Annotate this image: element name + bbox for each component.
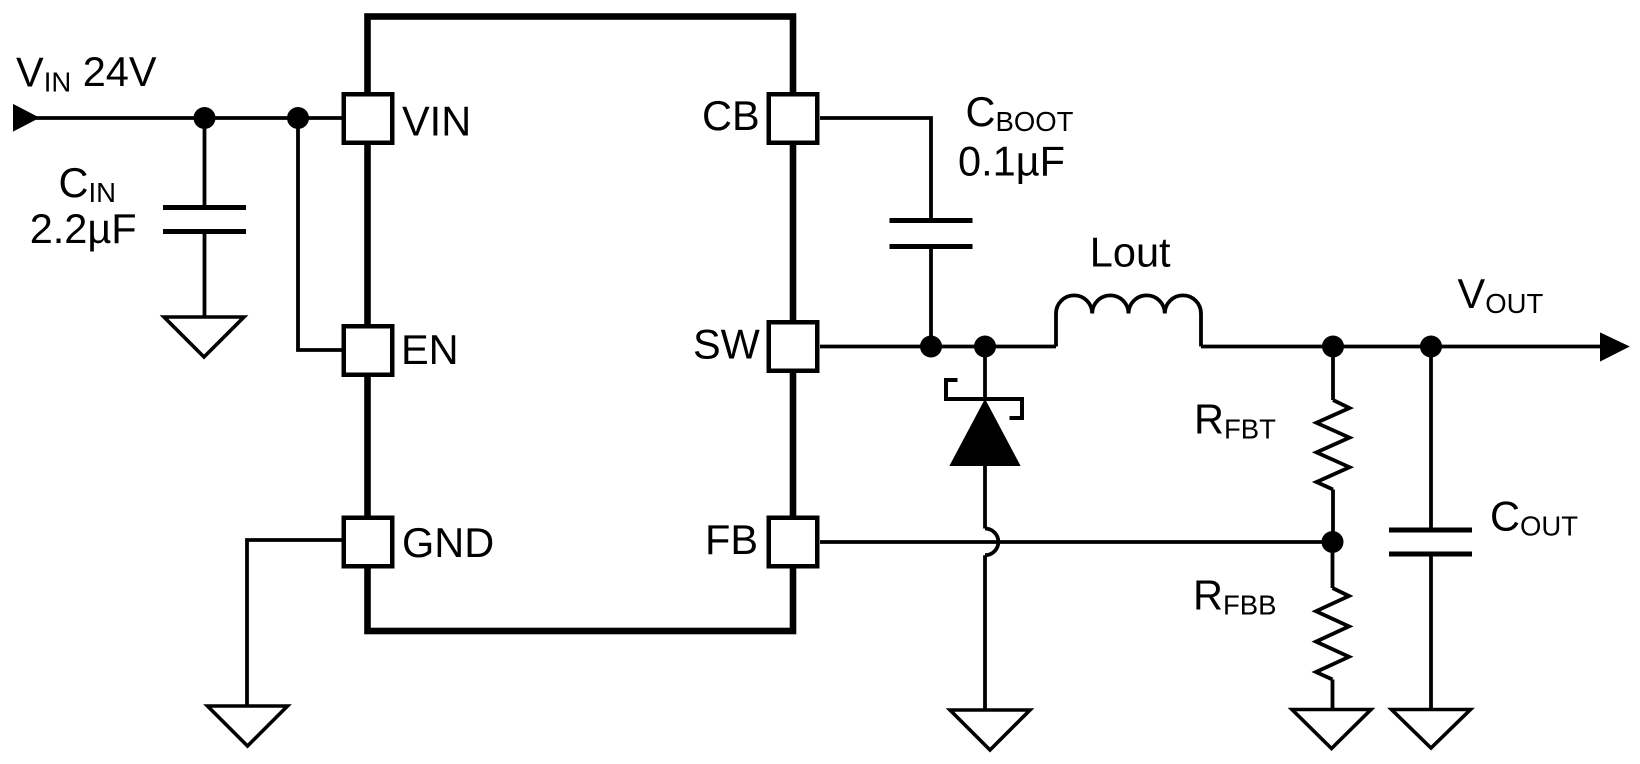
label CBOOT bbox=[966, 88, 1074, 137]
svg-text:GND: GND bbox=[402, 519, 494, 566]
svg-text:EN: EN bbox=[401, 326, 459, 373]
label pin VIN bbox=[402, 97, 471, 144]
label pin GND bbox=[402, 519, 494, 566]
wire FB node to RFBB bbox=[1331, 542, 1335, 588]
wire VIN input to VIN pin bbox=[30, 116, 342, 120]
node VOUT/RFBT junction bbox=[1322, 336, 1344, 358]
node FB junction bbox=[1322, 531, 1344, 553]
label pin FB bbox=[705, 516, 758, 563]
node VOUT/COUT junction bbox=[1420, 336, 1442, 358]
resistor RFBB bbox=[1316, 588, 1349, 680]
wire VOUT to COUT bbox=[1429, 347, 1433, 531]
label pin SW bbox=[693, 321, 761, 368]
pin GND (square) bbox=[344, 518, 393, 567]
capacitor CIN bbox=[163, 208, 246, 232]
svg-text:COUT: COUT bbox=[1490, 493, 1578, 542]
wire RFBB to ground bbox=[1331, 680, 1335, 710]
svg-text:CBOOT: CBOOT bbox=[966, 88, 1074, 137]
ground (RFBB) bbox=[1292, 710, 1371, 749]
capacitor CBOOT bbox=[890, 221, 973, 247]
svg-text:SW: SW bbox=[693, 321, 761, 368]
node SW/CBOOT junction bbox=[920, 336, 942, 358]
pin FB (square) bbox=[769, 518, 818, 567]
label VOUT bbox=[1458, 270, 1544, 319]
svg-text:CB: CB bbox=[702, 92, 760, 139]
svg-text:FB: FB bbox=[705, 516, 758, 563]
svg-text:VIN: VIN bbox=[402, 97, 471, 144]
label COUT bbox=[1490, 493, 1578, 542]
label VIN 24V bbox=[16, 48, 157, 98]
svg-text:0.1µF: 0.1µF bbox=[958, 137, 1065, 184]
wire D1 anode to ground bbox=[983, 555, 987, 710]
svg-text:VOUT: VOUT bbox=[1458, 270, 1544, 319]
svg-text:CIN: CIN bbox=[59, 159, 116, 208]
ground (D1) bbox=[950, 710, 1030, 750]
svg-text:Lout: Lout bbox=[1090, 229, 1171, 276]
inductor Lout bbox=[1056, 295, 1201, 346]
op IC U1 body bbox=[368, 17, 794, 632]
wire FB pin to divider bbox=[820, 540, 1333, 544]
wire SW to inductor bbox=[820, 345, 1056, 349]
label RFBB bbox=[1193, 572, 1276, 621]
label CBOOT value 0.1uF bbox=[958, 137, 1065, 184]
capacitor COUT bbox=[1389, 530, 1472, 554]
wire EN tap from input bbox=[298, 118, 342, 350]
pin VIN (square) bbox=[344, 94, 393, 143]
wire VOUT bbox=[1201, 345, 1605, 349]
ground (COUT) bbox=[1392, 710, 1471, 749]
node VIN/CIN junction bbox=[194, 107, 216, 129]
node VIN/EN junction bbox=[287, 107, 309, 129]
label CIN value 2.2uF bbox=[30, 205, 137, 252]
wire COUT to ground bbox=[1429, 554, 1433, 710]
svg-text:VIN 24V: VIN 24V bbox=[16, 48, 157, 98]
wire VOUT to RFBT bbox=[1331, 347, 1335, 401]
wire hop (D1 lead over FB wire) bbox=[985, 529, 998, 556]
net VIN input terminal (arrow) bbox=[14, 106, 38, 131]
svg-text:RFBT: RFBT bbox=[1194, 396, 1276, 445]
diode D1 (schottky) bbox=[946, 347, 1022, 529]
net VOUT terminal (arrow) bbox=[1601, 334, 1628, 360]
ground (GND pin) bbox=[208, 706, 288, 746]
pin CB (square) bbox=[769, 94, 818, 143]
label Lout bbox=[1090, 229, 1171, 276]
wire CB to CBOOT bbox=[820, 118, 931, 221]
wire CIN bottom lead bbox=[203, 232, 207, 318]
wire GND pin to ground bbox=[247, 540, 342, 706]
wire CBOOT to SW node bbox=[929, 247, 933, 347]
pin EN (square) bbox=[344, 326, 393, 375]
wire CIN top lead bbox=[203, 118, 207, 208]
node SW/D1 junction bbox=[974, 336, 996, 358]
svg-text:RFBB: RFBB bbox=[1193, 572, 1276, 621]
label CIN bbox=[59, 159, 116, 208]
label pin CB bbox=[702, 92, 760, 139]
label pin EN bbox=[401, 326, 459, 373]
svg-text:2.2µF: 2.2µF bbox=[30, 205, 137, 252]
ground (CIN) bbox=[164, 317, 244, 357]
wire RFBT to FB node bbox=[1331, 490, 1335, 543]
label RFBT bbox=[1194, 396, 1276, 445]
resistor RFBT bbox=[1317, 400, 1350, 490]
pin SW (square) bbox=[769, 322, 818, 371]
